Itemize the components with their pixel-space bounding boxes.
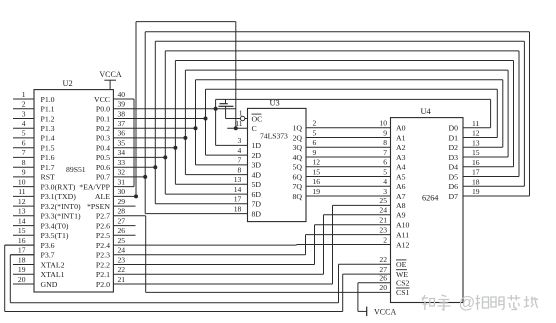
svg-text:21: 21 <box>118 275 126 284</box>
svg-text:A11: A11 <box>396 230 409 239</box>
svg-text:XTAL1: XTAL1 <box>41 270 65 279</box>
svg-text:8: 8 <box>238 165 242 174</box>
svg-text:14: 14 <box>234 185 242 194</box>
svg-text:22: 22 <box>118 265 126 274</box>
svg-text:D1: D1 <box>448 133 458 142</box>
wire AD3: P0.3 bus to 74LS373 4D and 6264 D3 <box>113 70 508 175</box>
wire P2.1 pin22 to 6264 A9 <box>113 215 390 274</box>
U4 right pin labels D0-D7 <box>448 124 458 201</box>
svg-text:3: 3 <box>383 187 387 196</box>
svg-text:18: 18 <box>18 255 26 264</box>
svg-text:28: 28 <box>118 207 126 216</box>
svg-text:P1.3: P1.3 <box>41 124 55 133</box>
svg-text:P1.4: P1.4 <box>41 134 55 143</box>
svg-text:9: 9 <box>383 128 387 137</box>
svg-text:5D: 5D <box>252 180 262 189</box>
wire P3.7 pin17 (RD) to 6264 OE <box>10 255 390 303</box>
svg-text:8: 8 <box>22 158 26 167</box>
svg-text:13: 13 <box>18 207 26 216</box>
junction AD1 on P0.1 row <box>204 117 208 121</box>
svg-text:21: 21 <box>379 216 387 225</box>
svg-text:VCC: VCC <box>94 95 110 104</box>
svg-text:12: 12 <box>18 197 26 206</box>
svg-text:27: 27 <box>118 216 126 225</box>
svg-text:7: 7 <box>383 148 387 157</box>
svg-text:P2.3: P2.3 <box>96 251 110 260</box>
svg-text:P1.2: P1.2 <box>41 114 55 123</box>
wire P2.5 stub pin26 <box>113 234 135 236</box>
wire latch output 3Q to 6264 A2 <box>306 146 391 148</box>
svg-text:P1.0: P1.0 <box>41 95 55 104</box>
svg-text:11: 11 <box>235 119 243 128</box>
svg-text:P1.1: P1.1 <box>41 105 55 114</box>
wire P2.6 stub pin27 <box>113 225 135 227</box>
svg-text:10: 10 <box>379 119 387 128</box>
U3 right pin labels 1Q-8Q <box>292 124 302 201</box>
wire latch output 4Q to 6264 A3 <box>306 156 391 158</box>
U2 left pin labels <box>41 95 81 289</box>
svg-text:19: 19 <box>313 187 321 196</box>
svg-text:6264: 6264 <box>422 193 438 202</box>
svg-text:22: 22 <box>379 255 387 264</box>
svg-text:24: 24 <box>379 206 387 215</box>
wire AD4: P0.4 bus to 74LS373 5D and 6264 D4 <box>113 61 513 185</box>
svg-text:15: 15 <box>472 148 480 157</box>
svg-text:P0.5: P0.5 <box>96 153 110 162</box>
svg-text:4Q: 4Q <box>292 153 302 162</box>
wire latch output 7Q to 6264 A6 <box>306 185 391 187</box>
svg-text:30: 30 <box>118 187 126 196</box>
svg-text:2: 2 <box>383 235 387 244</box>
svg-text:11: 11 <box>472 119 480 128</box>
svg-text:3: 3 <box>22 109 26 118</box>
IC U2 89S51 microcontroller <box>34 79 113 292</box>
svg-text:7D: 7D <box>252 200 262 209</box>
svg-text:XTAL2: XTAL2 <box>41 260 65 269</box>
svg-text:OE: OE <box>396 260 407 269</box>
wire AD0: P0.0 bus to 74LS373 1D and 6264 D0 <box>113 99 490 145</box>
svg-text:P1.5: P1.5 <box>41 144 55 153</box>
wire CS2 to VCCA <box>358 283 391 312</box>
svg-text:40: 40 <box>118 90 126 99</box>
svg-text:OC: OC <box>252 114 263 123</box>
ground symbol above 74LS373 <box>218 99 233 106</box>
svg-text:4: 4 <box>383 177 387 186</box>
svg-text:U3: U3 <box>270 98 280 107</box>
IC U4 6264 SRAM <box>391 107 464 303</box>
svg-text:33: 33 <box>118 158 126 167</box>
junction AD3 on P0.3 row <box>183 136 187 140</box>
svg-text:8D: 8D <box>252 209 262 218</box>
svg-text:9: 9 <box>313 148 317 157</box>
svg-text:74LS373: 74LS373 <box>260 131 288 140</box>
svg-text:3D: 3D <box>252 161 262 170</box>
wire AD7: P0.7 bus to 74LS373 8D and 6264 D7 <box>113 32 529 214</box>
svg-text:P0.4: P0.4 <box>96 144 110 153</box>
svg-text:VCCA: VCCA <box>374 307 396 316</box>
svg-text:GND: GND <box>41 280 58 289</box>
svg-text:U4: U4 <box>421 107 432 116</box>
svg-text:31: 31 <box>118 177 126 186</box>
power symbol VCCA at 6264 CS2 <box>367 307 397 317</box>
svg-text:A2: A2 <box>396 143 406 152</box>
svg-text:P2.4: P2.4 <box>96 241 110 250</box>
svg-text:D4: D4 <box>448 163 458 172</box>
U4 control pin labels OE WE CS2 CS1 <box>396 260 410 297</box>
svg-text:8: 8 <box>383 138 387 147</box>
wire ground to OC pin1 with inverter bubble <box>226 106 248 120</box>
svg-text:16: 16 <box>313 177 321 186</box>
svg-text:P0.6: P0.6 <box>96 163 110 172</box>
svg-text:27: 27 <box>379 265 387 274</box>
svg-text:5: 5 <box>383 167 387 176</box>
svg-text:13: 13 <box>234 175 242 184</box>
svg-text:6: 6 <box>383 158 387 167</box>
svg-text:36: 36 <box>118 129 126 138</box>
svg-text:2Q: 2Q <box>292 133 302 142</box>
U2 right pin labels <box>79 95 110 289</box>
svg-text:15: 15 <box>18 226 26 235</box>
svg-text:P0.0: P0.0 <box>96 105 110 114</box>
svg-text:7: 7 <box>238 156 242 165</box>
svg-text:1Q: 1Q <box>292 124 302 133</box>
svg-text:9: 9 <box>22 168 26 177</box>
svg-text:A6: A6 <box>396 182 406 191</box>
svg-text:D6: D6 <box>448 182 458 191</box>
svg-text:D5: D5 <box>448 172 458 181</box>
svg-text:7Q: 7Q <box>292 182 302 191</box>
U4 left pin numbers <box>379 119 387 293</box>
svg-text:25: 25 <box>118 236 126 245</box>
svg-text:1: 1 <box>22 90 26 99</box>
wire P3.6 pin16 (WR) to 6264 WE <box>5 245 391 311</box>
svg-text:P2.5: P2.5 <box>96 231 110 240</box>
svg-text:P0.7: P0.7 <box>96 173 110 182</box>
wire latch output 8Q to 6264 A7 <box>306 195 391 197</box>
svg-text:7: 7 <box>22 148 26 157</box>
svg-text:A8: A8 <box>396 201 406 210</box>
svg-text:P1.7: P1.7 <box>41 163 55 172</box>
svg-text:P0.2: P0.2 <box>96 124 110 133</box>
U3 pin numbers 1 and 11 <box>235 108 243 128</box>
svg-text:D3: D3 <box>448 153 458 162</box>
svg-text:25: 25 <box>379 196 387 205</box>
wire P2.2 pin23 to 6264 A10 <box>113 225 390 265</box>
svg-text:A1: A1 <box>396 133 406 142</box>
svg-text:5Q: 5Q <box>292 163 302 172</box>
svg-text:17: 17 <box>18 246 26 255</box>
svg-text:16: 16 <box>18 236 26 245</box>
wire AD5: P0.5 bus to 74LS373 6D and 6264 D5 <box>113 51 519 194</box>
svg-text:11: 11 <box>18 187 26 196</box>
junction ALE wire on C pin row <box>234 126 238 130</box>
svg-text:19: 19 <box>472 187 480 196</box>
svg-text:1D: 1D <box>252 141 262 150</box>
svg-text:12: 12 <box>313 158 321 167</box>
U4 right pin numbers 11-19 <box>472 119 480 196</box>
svg-text:D2: D2 <box>448 143 458 152</box>
svg-text:P2.2: P2.2 <box>96 260 110 269</box>
svg-text:20: 20 <box>379 283 387 292</box>
svg-text:26: 26 <box>379 274 387 283</box>
wire ALE pin30 to 74LS373 C pin11 <box>113 22 247 197</box>
U4 left pin labels A0-A12 <box>396 124 410 250</box>
svg-text:P2.7: P2.7 <box>96 212 110 221</box>
junction AD4 on P0.4 row <box>173 146 177 150</box>
wire *PSEN stub pin29 <box>113 205 135 207</box>
U2 left pin numbers 1-20 <box>18 90 26 284</box>
svg-text:A0: A0 <box>396 124 406 133</box>
wire P2.3 pin24 to 6264 A11 <box>113 235 390 255</box>
U2 left pin stubs pins 1-20 <box>5 99 34 284</box>
svg-text:A5: A5 <box>396 172 406 181</box>
svg-text:U2: U2 <box>63 79 73 88</box>
svg-text:16: 16 <box>472 158 480 167</box>
U2 right pin numbers 40-21 <box>118 90 126 284</box>
svg-text:23: 23 <box>379 225 387 234</box>
svg-text:A10: A10 <box>396 221 410 230</box>
svg-text:CS2: CS2 <box>396 279 410 288</box>
svg-text:2D: 2D <box>252 151 262 160</box>
svg-text:5: 5 <box>22 129 26 138</box>
junction AD6 on P0.6 row <box>153 165 157 169</box>
svg-text:23: 23 <box>118 255 126 264</box>
svg-text:3: 3 <box>238 136 242 145</box>
svg-text:C: C <box>252 124 257 133</box>
svg-text:18: 18 <box>234 204 242 213</box>
svg-text:4D: 4D <box>252 170 262 179</box>
svg-text:2: 2 <box>313 119 317 128</box>
svg-text:24: 24 <box>118 246 126 255</box>
junction AD7 on P0.7 row <box>143 175 147 179</box>
wire latch output 6Q to 6264 A5 <box>306 176 391 178</box>
wire VCC pin40 to EA/VPP pin31 <box>113 99 134 187</box>
svg-text:CS1: CS1 <box>396 288 410 297</box>
svg-text:12: 12 <box>472 129 480 138</box>
U3 left pin labels OC C 1D-8D <box>252 114 263 218</box>
svg-text:P2.6: P2.6 <box>96 221 110 230</box>
junction AD2 on P0.2 row <box>194 126 198 130</box>
IC U3 74LS373 address latch <box>248 98 307 221</box>
svg-text:P3.0(RXT): P3.0(RXT) <box>41 182 76 191</box>
svg-text:4: 4 <box>22 119 26 128</box>
svg-text:17: 17 <box>472 168 480 177</box>
svg-text:P3.4(T0): P3.4(T0) <box>41 221 69 230</box>
svg-text:19: 19 <box>18 265 26 274</box>
junction AD0 on P0.0 row <box>214 107 218 111</box>
svg-text:13: 13 <box>472 138 480 147</box>
svg-text:32: 32 <box>118 168 126 177</box>
svg-text:A7: A7 <box>396 192 406 201</box>
wire latch output 5Q to 6264 A4 <box>306 166 391 168</box>
svg-text:6: 6 <box>22 139 26 148</box>
svg-text:4: 4 <box>238 146 242 155</box>
svg-text:14: 14 <box>18 216 26 225</box>
junction AD5 on P0.5 row <box>163 155 167 159</box>
watermark zhihu @paiming <box>421 294 537 312</box>
svg-text:3Q: 3Q <box>292 143 302 152</box>
svg-text:A12: A12 <box>396 240 410 249</box>
svg-text:P3.3(*INT1): P3.3(*INT1) <box>41 212 81 221</box>
svg-text:P3.7: P3.7 <box>41 251 55 260</box>
svg-text:5: 5 <box>313 128 317 137</box>
svg-text:89S51: 89S51 <box>66 165 86 174</box>
svg-text:6Q: 6Q <box>292 172 302 181</box>
svg-text:6D: 6D <box>252 190 262 199</box>
svg-text:10: 10 <box>18 177 26 186</box>
wire AD1: P0.1 bus to 74LS373 2D and 6264 D1 <box>113 89 497 155</box>
junction on ALE pin wire <box>134 194 138 198</box>
svg-text:20: 20 <box>18 275 26 284</box>
power symbol VCCA (U2 VCC rail) <box>99 70 121 90</box>
svg-text:P3.2(*INT0): P3.2(*INT0) <box>41 202 81 211</box>
svg-text:A3: A3 <box>396 153 406 162</box>
svg-text:8Q: 8Q <box>292 192 302 201</box>
svg-text:VCCA: VCCA <box>99 70 121 79</box>
svg-text:*EA/VPP: *EA/VPP <box>79 182 110 191</box>
svg-text:39: 39 <box>118 100 126 109</box>
svg-text:D0: D0 <box>448 124 458 133</box>
wire P2.7 pin28 to 6264 CS1 <box>113 216 390 293</box>
svg-text:2: 2 <box>22 100 26 109</box>
svg-text:*PSEN: *PSEN <box>87 202 110 211</box>
svg-text:P3.5(T1): P3.5(T1) <box>41 231 69 240</box>
wire P2.4 pin25 to 6264 A12 <box>113 244 390 247</box>
svg-text:35: 35 <box>118 139 126 148</box>
svg-text:17: 17 <box>234 195 242 204</box>
svg-text:D7: D7 <box>448 192 458 201</box>
wire AD6: P0.6 bus to 74LS373 7D and 6264 D6 <box>113 41 524 204</box>
wire P2.0 pin21 to 6264 A8 <box>113 205 390 284</box>
svg-text:P0.3: P0.3 <box>96 134 110 143</box>
svg-text:38: 38 <box>118 109 126 118</box>
svg-text:P2.0: P2.0 <box>96 280 110 289</box>
wire latch output 1Q to 6264 A0 <box>306 127 391 129</box>
svg-text:26: 26 <box>118 226 126 235</box>
svg-text:P1.6: P1.6 <box>41 153 55 162</box>
svg-text:1: 1 <box>239 108 243 117</box>
svg-text:WE: WE <box>396 270 408 279</box>
svg-text:P3.6: P3.6 <box>41 241 55 250</box>
svg-text:ALE: ALE <box>95 192 110 201</box>
wire AD2: P0.2 bus to 74LS373 3D and 6264 D2 <box>113 80 502 165</box>
U3 right pin numbers 2,5,6,9,12,15,16,19 <box>313 119 321 196</box>
svg-text:P3.1(TXD): P3.1(TXD) <box>41 192 77 201</box>
svg-text:@: @ <box>459 294 476 312</box>
svg-text:29: 29 <box>118 197 126 206</box>
U3 left pin numbers 3,4,7,8,13,14,17,18 <box>234 136 242 213</box>
svg-text:34: 34 <box>118 148 126 157</box>
svg-text:18: 18 <box>472 177 480 186</box>
svg-text:P2.1: P2.1 <box>96 270 110 279</box>
svg-text:15: 15 <box>313 167 321 176</box>
svg-text:A9: A9 <box>396 211 406 220</box>
svg-text:RST: RST <box>41 173 56 182</box>
svg-text:37: 37 <box>118 119 126 128</box>
wire latch output 2Q to 6264 A1 <box>306 137 391 139</box>
svg-text:P0.1: P0.1 <box>96 114 110 123</box>
svg-text:6: 6 <box>313 138 317 147</box>
svg-text:A4: A4 <box>396 163 406 172</box>
